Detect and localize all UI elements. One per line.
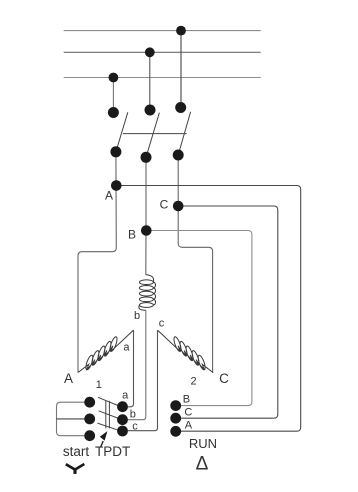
svg-text:RUN: RUN [189, 436, 217, 451]
svg-text:a: a [123, 342, 130, 354]
svg-text:b: b [130, 409, 136, 421]
svg-text:c: c [132, 420, 138, 432]
svg-text:C: C [184, 406, 192, 418]
svg-text:B: B [128, 227, 136, 241]
svg-text:1: 1 [96, 379, 102, 391]
svg-text:b: b [134, 310, 140, 322]
svg-text:a: a [122, 389, 129, 401]
svg-text:A: A [64, 371, 73, 386]
svg-text:c: c [159, 318, 165, 330]
svg-text:2: 2 [191, 376, 197, 388]
svg-text:B: B [183, 394, 190, 406]
svg-text:start: start [63, 444, 90, 459]
svg-text:TPDT: TPDT [95, 444, 130, 459]
svg-text:A: A [185, 420, 193, 432]
svg-text:C: C [219, 371, 229, 386]
svg-text:C: C [160, 198, 169, 212]
svg-text:A: A [105, 189, 113, 203]
svg-text:Δ: Δ [196, 453, 209, 474]
